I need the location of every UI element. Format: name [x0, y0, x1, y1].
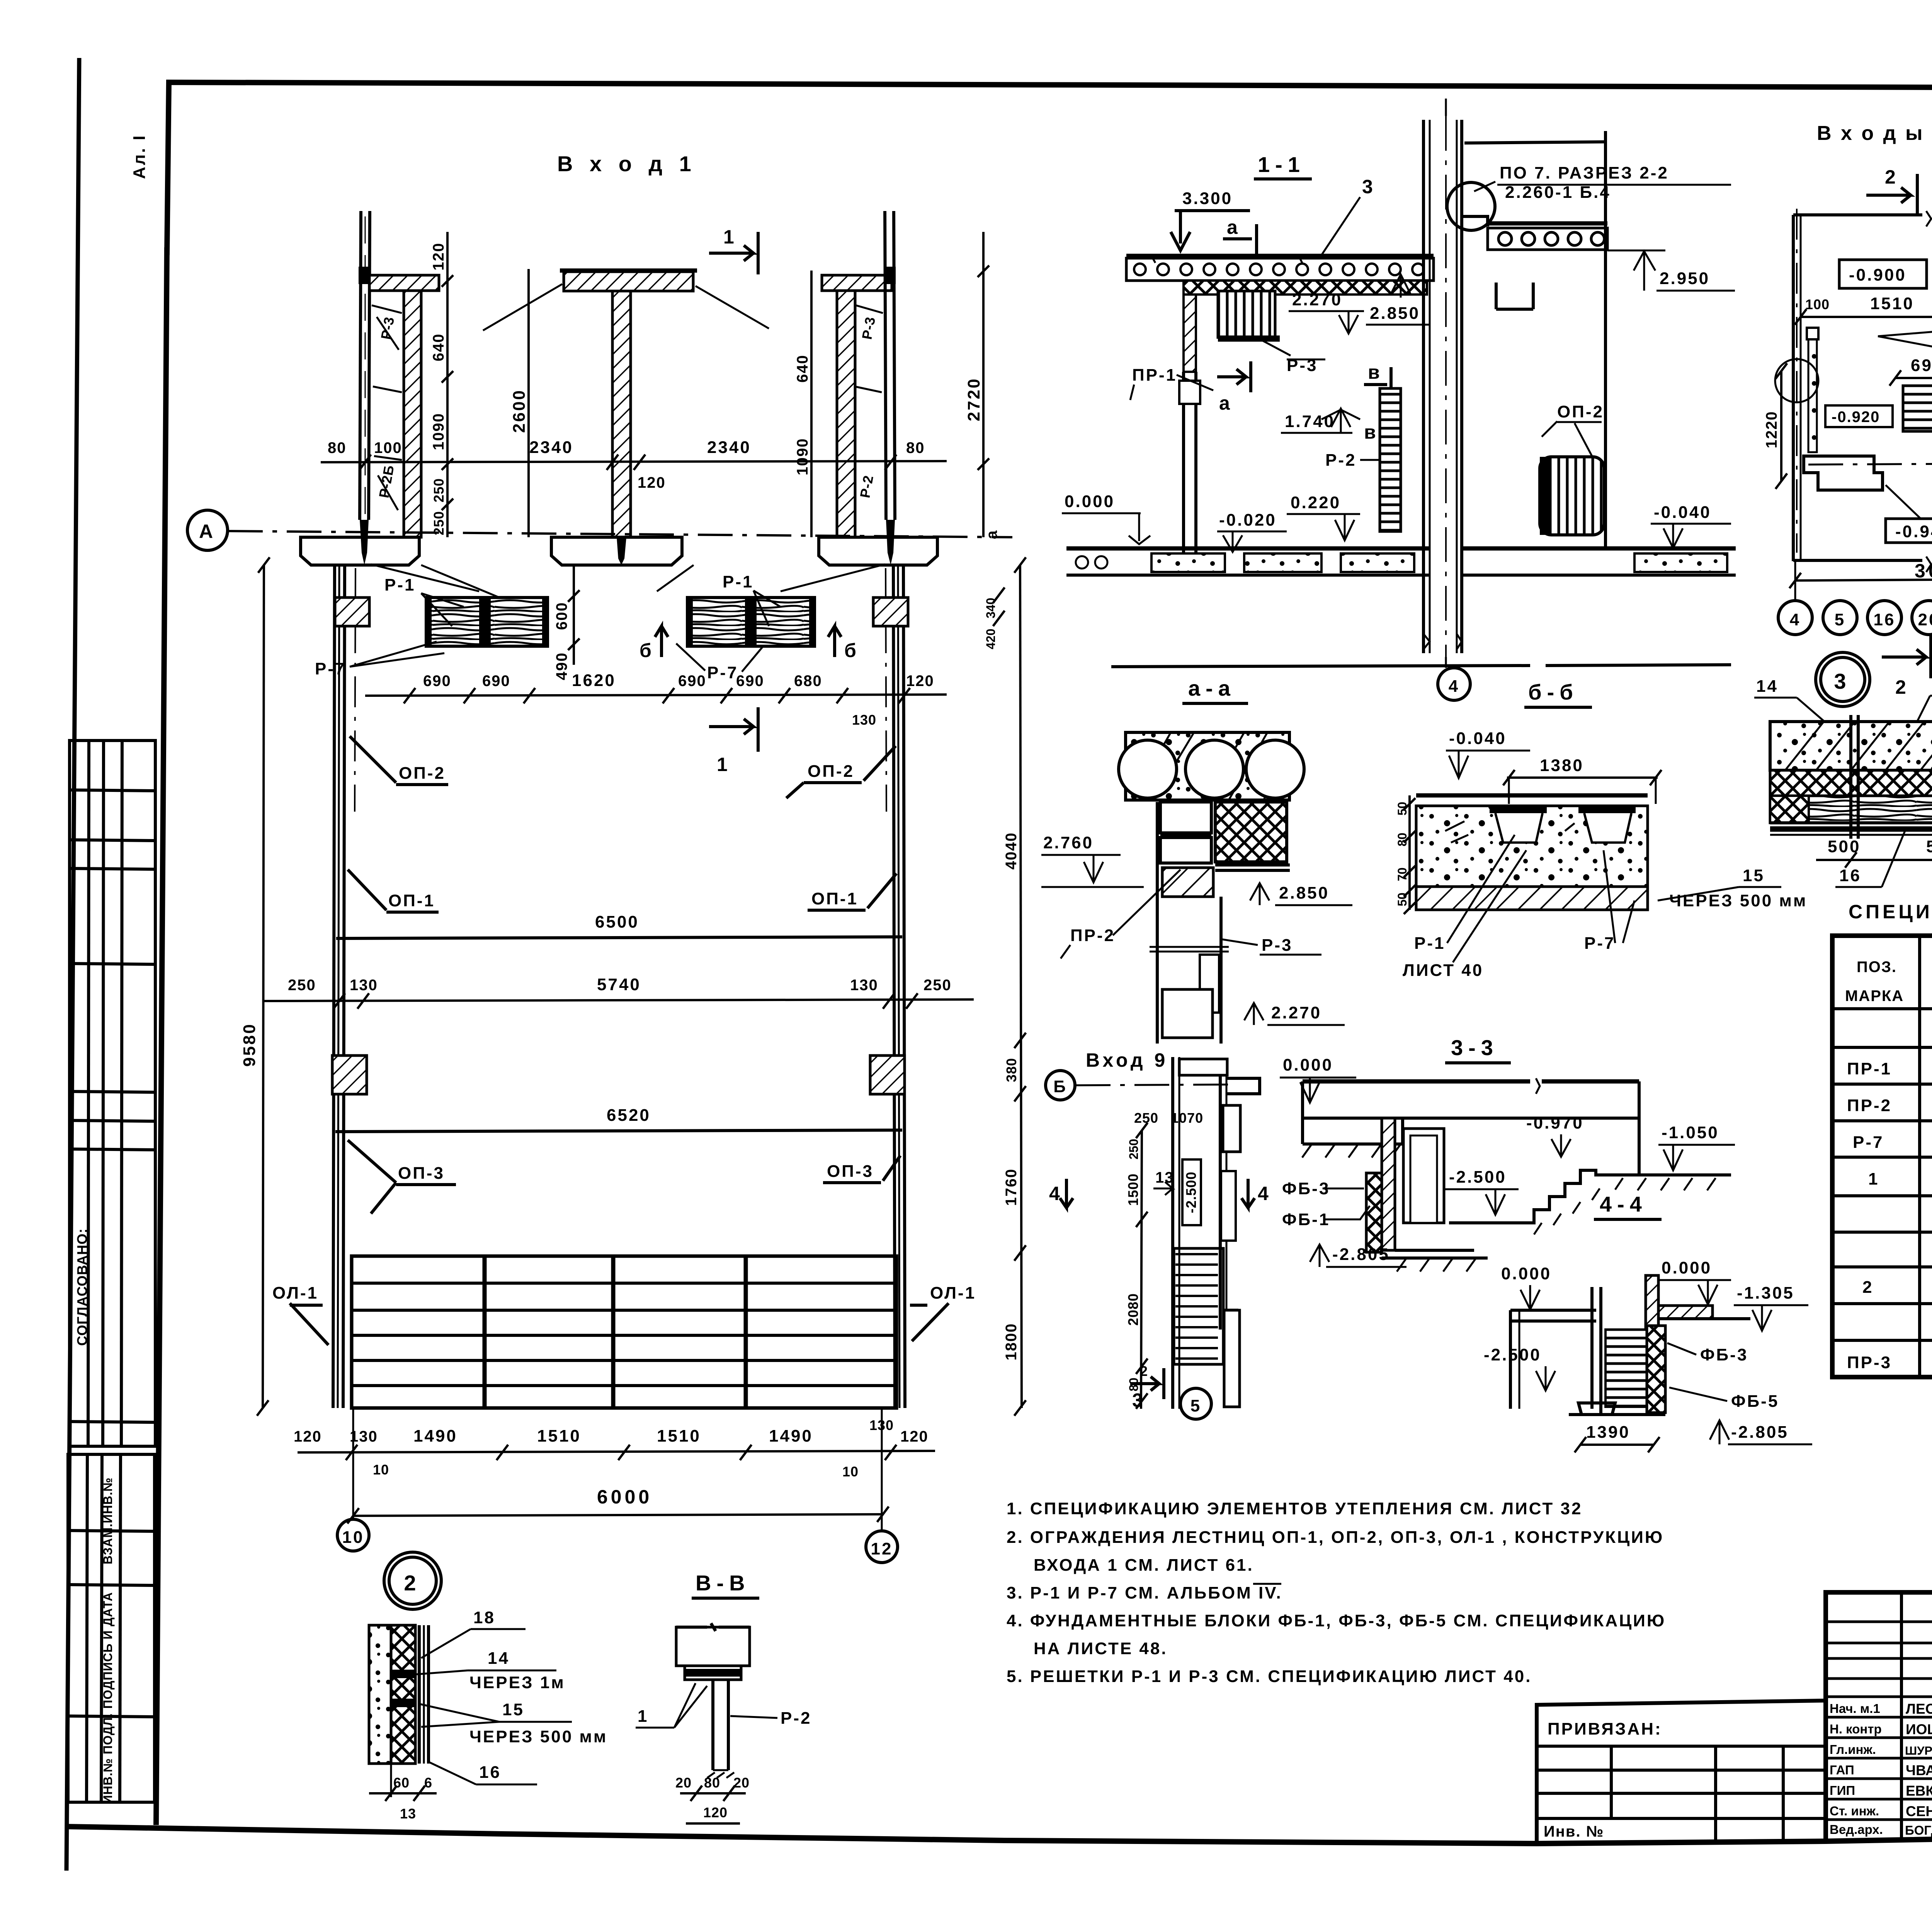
svg-text:ПР-2: ПР-2 [1070, 926, 1115, 945]
svg-text:70: 70 [1395, 867, 1409, 881]
svg-text:1: 1 [723, 226, 737, 248]
svg-text:ОП-1: ОП-1 [388, 891, 435, 910]
svg-text:Ал. I: Ал. I [130, 134, 149, 179]
svg-text:120: 120 [703, 1805, 728, 1820]
svg-text:ФБ-5: ФБ-5 [1731, 1392, 1779, 1411]
svg-text:1510: 1510 [657, 1427, 701, 1445]
svg-text:2.270: 2.270 [1271, 1003, 1321, 1022]
svg-text:а-а: а-а [1188, 676, 1236, 700]
svg-text:Р-1: Р-1 [1414, 934, 1445, 953]
layered floor band [1770, 722, 1932, 770]
tie rods [1849, 715, 1852, 839]
svg-text:-0.940: -0.940 [1895, 522, 1932, 541]
svg-text:ОП-3: ОП-3 [398, 1164, 445, 1183]
svg-text:3-3: 3-3 [1451, 1035, 1498, 1060]
svg-text:ПР-2: ПР-2 [1847, 1096, 1892, 1115]
left wall 1-1 [1184, 295, 1196, 372]
svg-text:1-1: 1-1 [1258, 152, 1305, 177]
grille in plan [1903, 386, 1932, 431]
svg-text:5. РЕШЕТКИ Р-1 И Р-3 СМ. С: 5. РЕШЕТКИ Р-1 И Р-3 СМ. СПЕЦИФИКАЦИЮ ЛИ… [1007, 1667, 1532, 1686]
VHOD9 3-3 4-4 [1046, 1035, 1812, 1452]
svg-text:Вход 9: Вход 9 [1086, 1049, 1168, 1071]
svg-text:ЕВКО: ЕВКО [1906, 1783, 1932, 1799]
svg-text:14: 14 [1756, 677, 1778, 696]
svg-text:ПО 7. РАЗРЕЗ 2-2: ПО 7. РАЗРЕЗ 2-2 [1500, 163, 1669, 182]
LEFT EDGE STRIPS [68, 741, 155, 1804]
svg-text:16: 16 [1874, 610, 1896, 629]
svg-text:13: 13 [1155, 1169, 1174, 1186]
svg-text:БОГДАНОВА: БОГДАНОВА [1905, 1823, 1932, 1837]
a-a wall below [1160, 802, 1211, 833]
svg-text:В х о д ы 4, 2, 3, 5: В х о д ы 4, 2, 3, 5 [1817, 122, 1932, 145]
section mark 1 top [709, 232, 758, 274]
grille R-3 [1218, 291, 1275, 337]
dim 5740 [264, 999, 974, 1001]
svg-text:1: 1 [717, 754, 731, 775]
svg-text:120: 120 [900, 1428, 929, 1445]
section mark a top [1223, 224, 1257, 255]
svg-text:3: 3 [1362, 176, 1376, 197]
axis bubble B [1046, 1071, 1075, 1100]
bottom dim string [298, 1451, 935, 1452]
svg-text:120: 120 [294, 1428, 322, 1445]
svg-text:6000: 6000 [597, 1486, 652, 1508]
left hatched column [404, 291, 421, 537]
grille seats [1490, 807, 1547, 813]
svg-text:13: 13 [400, 1806, 416, 1822]
NOTES AND B-B DETAIL2 [369, 1499, 1666, 1823]
svg-text:4: 4 [1790, 610, 1801, 629]
dim string 690s [365, 695, 947, 696]
lower strip table [68, 1454, 155, 1802]
detail circle on wall [1447, 182, 1495, 230]
privyazan annex [1537, 1701, 1826, 1844]
svg-text:10: 10 [342, 1528, 364, 1547]
svg-text:Р-3: Р-3 [1262, 936, 1293, 955]
foot [1578, 1403, 1615, 1415]
svg-text:СПЕЦИФИКАЦИЯ ЭЛЕМЕНТОВ ВХОДО: СПЕЦИФИКАЦИЯ ЭЛЕМЕНТОВ ВХОДОВ [1849, 901, 1932, 923]
svg-text:Р-2: Р-2 [1325, 451, 1356, 470]
svg-text:4: 4 [1449, 677, 1459, 696]
svg-text:в: в [1364, 421, 1379, 443]
svg-text:Ст. инж.: Ст. инж. [1830, 1804, 1879, 1818]
svg-text:6500: 6500 [595, 913, 639, 931]
svg-text:Р-2: Р-2 [781, 1709, 811, 1728]
frame bottom border [66, 1827, 1932, 1844]
svg-text:Р-7: Р-7 [1584, 934, 1615, 953]
svg-text:ГАП: ГАП [1830, 1763, 1854, 1777]
master 9580 dim [263, 565, 264, 1408]
PLAN 4235 AND 2-2 [1763, 122, 1932, 698]
svg-text:0.000: 0.000 [1065, 492, 1115, 511]
svg-text:2600: 2600 [510, 389, 529, 433]
svg-text:Вед.арх.: Вед.арх. [1830, 1822, 1883, 1837]
right top beam hatched [822, 275, 892, 291]
svg-text:Инв. №: Инв. № [1544, 1823, 1604, 1840]
svg-text:б: б [639, 640, 655, 661]
frame top border [167, 82, 1932, 255]
svg-text:ИНВ.№ ПОДЛ.: ИНВ.№ ПОДЛ. [101, 1713, 115, 1804]
svg-text:ЛИСТ 40: ЛИСТ 40 [1403, 961, 1483, 980]
svg-text:80: 80 [906, 439, 925, 456]
bottom benches [1804, 456, 1883, 490]
svg-text:20: 20 [1918, 610, 1932, 629]
svg-text:640: 640 [794, 354, 811, 383]
foundation blocks [301, 537, 419, 565]
svg-text:Р-1: Р-1 [723, 572, 753, 591]
stairs balusters 4-4 [1605, 1330, 1649, 1407]
svg-text:Р-7: Р-7 [315, 659, 346, 678]
svg-text:0.000: 0.000 [1501, 1264, 1551, 1283]
svg-text:690: 690 [1911, 356, 1932, 375]
svg-text:ОЛ-1: ОЛ-1 [272, 1284, 318, 1302]
svg-text:Б: Б [1053, 1077, 1067, 1096]
svg-text:2: 2 [1895, 676, 1909, 698]
svg-text:80: 80 [704, 1775, 720, 1791]
lower break lines [1111, 666, 1530, 667]
svg-text:15: 15 [1743, 866, 1765, 885]
svg-text:ЛЕОНОВ: ЛЕОНОВ [1906, 1701, 1932, 1717]
b-b slab [1416, 793, 1648, 798]
svg-text:Нач. м.1: Нач. м.1 [1830, 1701, 1880, 1716]
stairs grid [352, 1256, 896, 1408]
svg-text:250: 250 [1127, 1139, 1141, 1159]
grid bubbles below plan [1794, 561, 1796, 601]
right floor [1462, 546, 1736, 551]
svg-text:-0.970: -0.970 [1526, 1113, 1584, 1132]
svg-text:2.850: 2.850 [1370, 304, 1420, 323]
svg-text:1090: 1090 [794, 438, 811, 475]
svg-text:-0.040: -0.040 [1654, 503, 1711, 522]
svg-text:1: 1 [1868, 1170, 1879, 1188]
svg-text:600: 600 [553, 602, 570, 630]
svg-text:20: 20 [733, 1775, 750, 1791]
svg-text:10: 10 [373, 1462, 389, 1478]
stairs 3-3 [1449, 1081, 1731, 1223]
svg-text:0.000: 0.000 [1662, 1258, 1712, 1277]
svg-text:6520: 6520 [607, 1106, 651, 1125]
svg-text:ОЛ-1: ОЛ-1 [930, 1284, 976, 1302]
svg-text:2.850: 2.850 [1279, 884, 1329, 902]
-0.900 box [1839, 260, 1927, 288]
svg-text:2.260-1 Б.4: 2.260-1 Б.4 [1505, 183, 1611, 202]
svg-text:10: 10 [842, 1464, 859, 1479]
SECTION 1-1 [983, 99, 1736, 700]
svg-text:А: А [199, 521, 216, 542]
svg-text:690: 690 [678, 672, 706, 690]
svg-text:ПР-1: ПР-1 [1132, 366, 1177, 385]
svg-text:1620: 1620 [572, 671, 616, 690]
ground axis line with circle A [187, 510, 228, 550]
staff grid [1900, 1592, 1903, 1840]
svg-text:0.000: 0.000 [1283, 1056, 1333, 1074]
svg-text:12: 12 [871, 1539, 893, 1558]
svg-text:ПР-3: ПР-3 [1847, 1353, 1892, 1372]
frame left border [156, 247, 167, 1825]
svg-text:2.950: 2.950 [1660, 269, 1710, 288]
svg-text:120: 120 [638, 474, 666, 491]
svg-text:130: 130 [850, 977, 878, 994]
svg-text:250: 250 [431, 478, 447, 502]
svg-text:3: 3 [1132, 1389, 1146, 1411]
svg-text:690: 690 [482, 672, 510, 690]
svg-text:ПОДПИСЬ И ДАТА: ПОДПИСЬ И ДАТА [101, 1592, 115, 1709]
detail 2 wall section [369, 1625, 391, 1764]
floor band [1066, 546, 1430, 551]
svg-text:0.220: 0.220 [1291, 493, 1341, 512]
DETAILS a-a b-b [1041, 676, 1807, 1044]
grid bubbles 10 12 [337, 1519, 369, 1551]
svg-text:-1.050: -1.050 [1662, 1123, 1719, 1142]
svg-text:В-В: В-В [696, 1571, 750, 1595]
svg-text:130: 130 [350, 977, 378, 994]
svg-text:130: 130 [852, 712, 876, 728]
svg-text:1510: 1510 [537, 1427, 581, 1445]
a-a slab with cores [1126, 732, 1289, 800]
svg-text:4-4: 4-4 [1600, 1192, 1647, 1216]
3-3 wall strip [1382, 1118, 1395, 1250]
svg-text:ГИП: ГИП [1830, 1783, 1855, 1798]
svg-text:2. ОГРАЖДЕНИЯ ЛЕСТНИЦ ОП-1,: 2. ОГРАЖДЕНИЯ ЛЕСТНИЦ ОП-1, ОП-2, ОП-3, … [1007, 1528, 1664, 1547]
svg-text:Н. контр: Н. контр [1830, 1722, 1882, 1736]
svg-text:2: 2 [404, 1571, 421, 1595]
small hatched blocks at rail tops [335, 598, 369, 626]
svg-text:18: 18 [473, 1608, 495, 1627]
svg-text:6: 6 [424, 1775, 432, 1791]
svg-text:-0.020: -0.020 [1219, 511, 1277, 529]
pit bottom [1382, 1250, 1488, 1258]
svg-text:ФБ-3: ФБ-3 [1282, 1179, 1330, 1198]
door [1403, 1129, 1444, 1223]
svg-text:2: 2 [1885, 166, 1899, 188]
svg-text:ЧЕРЕЗ 500 мм: ЧЕРЕЗ 500 мм [1669, 891, 1807, 910]
svg-text:2080: 2080 [1125, 1293, 1141, 1326]
svg-text:Р-1: Р-1 [384, 575, 415, 594]
svg-text:ОП-2: ОП-2 [399, 764, 446, 783]
svg-text:ФБ-1: ФБ-1 [1282, 1210, 1330, 1229]
svg-text:1500: 1500 [1125, 1173, 1141, 1206]
4-4 walls [1509, 1310, 1512, 1409]
svg-text:9580: 9580 [240, 1023, 259, 1067]
top slab with hollow cores [1126, 254, 1434, 258]
svg-text:ИОШИНА: ИОШИНА [1906, 1721, 1932, 1737]
svg-text:ЧВАЛУН: ЧВАЛУН [1906, 1762, 1932, 1778]
section mark 1 bottom [709, 707, 758, 752]
svg-text:-2.500: -2.500 [1449, 1168, 1507, 1187]
svg-text:1070: 1070 [1171, 1110, 1203, 1126]
svg-text:20: 20 [675, 1775, 692, 1791]
insulation strip under slab [1184, 281, 1427, 295]
svg-text:640: 640 [430, 333, 447, 361]
long rails below ground [333, 565, 335, 1408]
svg-text:1390: 1390 [1586, 1423, 1630, 1442]
svg-text:250: 250 [923, 977, 952, 994]
left thin post [360, 211, 361, 520]
svg-text:-2.500: -2.500 [1183, 1171, 1199, 1213]
svg-text:14: 14 [488, 1649, 510, 1668]
svg-text:ШУРМУХИНА: ШУРМУХИНА [1905, 1744, 1932, 1757]
center T stem [612, 291, 631, 537]
svg-text:250: 250 [288, 977, 316, 994]
svg-text:Р-7: Р-7 [1853, 1133, 1884, 1152]
svg-text:-2.500: -2.500 [1484, 1345, 1541, 1364]
svg-text:3000: 3000 [1915, 560, 1932, 582]
svg-text:3: 3 [1834, 669, 1851, 693]
svg-text:СОГЛАСОВАНО:: СОГЛАСОВАНО: [74, 1228, 90, 1346]
section mark 2 bottom [1882, 636, 1931, 678]
svg-text:1760: 1760 [1003, 1168, 1020, 1206]
svg-text:1490: 1490 [769, 1427, 813, 1445]
svg-text:1380: 1380 [1540, 756, 1584, 775]
vertical dim chains top [446, 232, 449, 537]
svg-text:5740: 5740 [597, 975, 641, 994]
section a bottom [1217, 361, 1251, 392]
right hatched column [837, 291, 855, 537]
svg-text:ОП-1: ОП-1 [811, 889, 858, 908]
svg-text:2: 2 [1140, 1363, 1148, 1379]
svg-text:680: 680 [794, 672, 822, 690]
right thin post [885, 211, 886, 520]
SPEC TABLE [1832, 899, 1932, 1377]
svg-text:ПОЗ.: ПОЗ. [1857, 958, 1897, 976]
left infill frame lines [372, 305, 402, 460]
center T column beam [564, 272, 693, 291]
central tall wall [1422, 120, 1425, 653]
svg-text:ФБ-3: ФБ-3 [1700, 1345, 1748, 1364]
-0.920 box [1825, 405, 1893, 427]
1220 vertical dim [1780, 371, 1782, 481]
svg-text:3. Р-1 И Р-7 СМ. АЛЬБОМ IV.: 3. Р-1 И Р-7 СМ. АЛЬБОМ IV. [1007, 1583, 1282, 1602]
grille R-2 vertical [1380, 388, 1401, 531]
svg-text:б-б: б-б [1528, 680, 1578, 704]
svg-text:2.760: 2.760 [1043, 833, 1094, 852]
svg-text:ЧЕРЕЗ 1м: ЧЕРЕЗ 1м [469, 1673, 565, 1692]
svg-text:100: 100 [1805, 296, 1830, 312]
svg-text:-1.305: -1.305 [1737, 1284, 1794, 1302]
svg-text:2.270: 2.270 [1292, 290, 1342, 309]
-2.500 rotated box [1182, 1159, 1201, 1225]
right vertical dim chain [1020, 565, 1022, 1408]
axis line with circle [1808, 463, 1932, 465]
TITLE BLOCK [1537, 1592, 1932, 1859]
detail circle 3 [1816, 652, 1870, 707]
svg-text:1.740: 1.740 [1285, 412, 1335, 431]
svg-text:4: 4 [1258, 1183, 1272, 1204]
svg-text:СЕНИНА: СЕНИНА [1906, 1803, 1932, 1819]
svg-text:ЧЕРЕЗ 500 мм: ЧЕРЕЗ 500 мм [469, 1727, 607, 1746]
svg-text:-0.920: -0.920 [1832, 409, 1880, 426]
svg-text:ПР-1: ПР-1 [1847, 1059, 1892, 1078]
svg-text:б: б [844, 640, 859, 661]
svg-text:а: а [1227, 216, 1241, 238]
svg-text:1800: 1800 [1003, 1323, 1020, 1360]
svg-text:ОП-2: ОП-2 [1557, 402, 1604, 421]
svg-text:ОП-3: ОП-3 [827, 1162, 874, 1181]
svg-text:80: 80 [328, 439, 347, 456]
svg-text:-2.805: -2.805 [1731, 1423, 1789, 1442]
paper left edge line [66, 58, 79, 1871]
svg-text:60: 60 [393, 1775, 410, 1791]
svg-text:МАРКА: МАРКА [1845, 987, 1904, 1004]
vhod9 plan walls [1171, 1057, 1174, 1409]
svg-text:4040: 4040 [1003, 832, 1020, 870]
svg-text:100: 100 [374, 439, 402, 456]
svg-text:1: 1 [638, 1707, 648, 1726]
axis bubble 4 [1445, 657, 1447, 668]
plan outer walls [1792, 215, 1795, 561]
svg-text:ВХОДА 1 СМ. ЛИСТ 61.: ВХОДА 1 СМ. ЛИСТ 61. [1034, 1556, 1254, 1575]
svg-text:НА ЛИСТЕ 48.: НА ЛИСТЕ 48. [1034, 1639, 1168, 1658]
table frame [1832, 936, 1932, 1377]
svg-text:15: 15 [502, 1700, 524, 1719]
horizontal dim line level [321, 461, 947, 462]
main title block [1826, 1592, 1932, 1841]
svg-text:Гл.инж.: Гл.инж. [1830, 1742, 1876, 1757]
DETAILS 3 AND 1 [1754, 652, 1932, 899]
svg-text:2340: 2340 [707, 438, 751, 457]
svg-text:490: 490 [553, 652, 570, 680]
VHOD1 ELEVATION [187, 152, 1026, 1609]
big detail circle 2 [384, 1552, 441, 1609]
svg-text:500: 500 [1926, 837, 1932, 856]
svg-text:а: а [983, 530, 1000, 539]
svg-text:2: 2 [1862, 1278, 1873, 1297]
svg-text:1220: 1220 [1763, 411, 1780, 448]
svg-text:80: 80 [1395, 833, 1409, 846]
svg-text:420: 420 [984, 629, 998, 649]
svg-text:120: 120 [906, 672, 934, 690]
svg-text:2340: 2340 [529, 438, 573, 457]
-0.940 box [1886, 519, 1932, 543]
soglasovano table [70, 741, 155, 1446]
svg-text:16: 16 [479, 1763, 501, 1782]
svg-text:380: 380 [1003, 1058, 1019, 1082]
svg-text:2720: 2720 [964, 377, 983, 421]
svg-text:16: 16 [1839, 866, 1861, 885]
svg-text:В х о д 1: В х о д 1 [557, 152, 697, 176]
svg-text:ПРИВЯЗАН:: ПРИВЯЗАН: [1548, 1720, 1662, 1738]
wood grilles R-1 [426, 598, 548, 646]
foundation blocks 3-3 [1366, 1173, 1382, 1252]
section v marks [1364, 367, 1391, 398]
left small dims b-b [1408, 795, 1411, 910]
svg-text:1. СПЕЦИФИКАЦИЮ ЭЛЕМЕНТОВ УТЕ: 1. СПЕЦИФИКАЦИЮ ЭЛЕМЕНТОВ УТЕПЛЕНИЯ СМ. … [1007, 1499, 1582, 1518]
left top beam hatched [369, 275, 439, 291]
3-3 upper slab [1303, 1079, 1639, 1084]
svg-text:50: 50 [1395, 892, 1409, 906]
svg-text:1090: 1090 [430, 413, 447, 450]
svg-text:3.300: 3.300 [1182, 189, 1233, 208]
svg-text:в: в [1368, 361, 1383, 383]
right slab with cores [1488, 221, 1607, 226]
svg-text:-0.040: -0.040 [1449, 729, 1507, 748]
svg-text:690: 690 [736, 672, 764, 690]
svg-text:а: а [1219, 392, 1233, 414]
vertical 600/490 dims [573, 565, 575, 665]
leader diagonals [483, 284, 769, 330]
svg-text:Р-7: Р-7 [707, 663, 738, 682]
svg-text:-2.805: -2.805 [1332, 1245, 1390, 1264]
a-a crosshatch block [1215, 802, 1287, 862]
svg-text:690: 690 [423, 672, 451, 690]
svg-text:340: 340 [984, 598, 998, 618]
hatched blocks mid rails [332, 1056, 367, 1094]
svg-text:ОП-2: ОП-2 [808, 762, 854, 781]
svg-text:1490: 1490 [413, 1427, 457, 1445]
svg-text:1510: 1510 [1870, 294, 1914, 313]
svg-text:5: 5 [1835, 610, 1845, 629]
stairs treads [1175, 1254, 1218, 1359]
